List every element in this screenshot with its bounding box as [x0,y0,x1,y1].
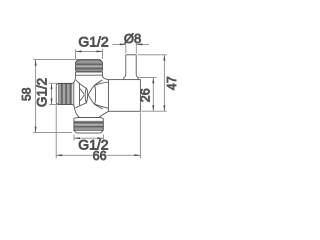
dim top G1/2: arrows [76,50,103,52]
svg-text:Ø8: Ø8 [124,31,141,46]
left arm skirt tangent [79,83,81,106]
dim 66: lines [56,105,140,159]
svg-text:58: 58 [19,87,33,101]
left horn [80,88,85,94]
dim 26: arrows [152,77,154,111]
petal bottom-left [75,103,86,108]
svg-text:47: 47 [165,76,179,90]
dim G1/2 bottom: lines [74,135,103,141]
right block [109,80,141,112]
right arm silhouette bottom [95,104,109,108]
svg-text:66: 66 [93,149,107,163]
bottom stub collar [74,118,103,122]
right arm silhouette top [95,82,109,85]
dim top G1/2: line [76,49,103,59]
svg-text:G1/2: G1/2 [78,34,109,50]
dim Ø8: arrows [120,43,143,45]
dim 47: lines [138,55,167,111]
dim G1/2 left: arrows [51,83,53,104]
body fillet bottom-left [74,105,80,117]
bottom stub threads G1/2 [74,121,103,133]
dim Ø8: lines [113,43,150,54]
body fillet bottom-right from block [99,111,109,117]
dim 58: arrows [35,60,37,133]
svg-text:26: 26 [138,88,152,102]
dim 47: arrows [163,55,165,111]
body fillet top-right to block [102,75,108,79]
central lens [85,88,87,103]
petal top-right [95,80,103,85]
dim 66: arrows [56,154,140,156]
petal top-left [76,80,86,88]
petal bottom-right [95,104,103,109]
dim G1/2 bottom: arrows [74,137,103,139]
right horn [88,85,95,104]
body fillet top-left [74,75,76,82]
left stub threads G1/2 [56,83,72,104]
top stub collar [76,72,103,75]
left arm skirt rim [73,83,75,106]
svg-text:G1/2: G1/2 [34,78,49,107]
dim 58: lines [33,60,78,133]
top stub threads G1/2 [76,59,103,71]
knob cylinder Ø8 [124,55,138,80]
dim 26: lines [138,77,156,111]
skirt to thread crest arcs [73,82,74,85]
dim G1/2 left: lines [49,83,57,104]
